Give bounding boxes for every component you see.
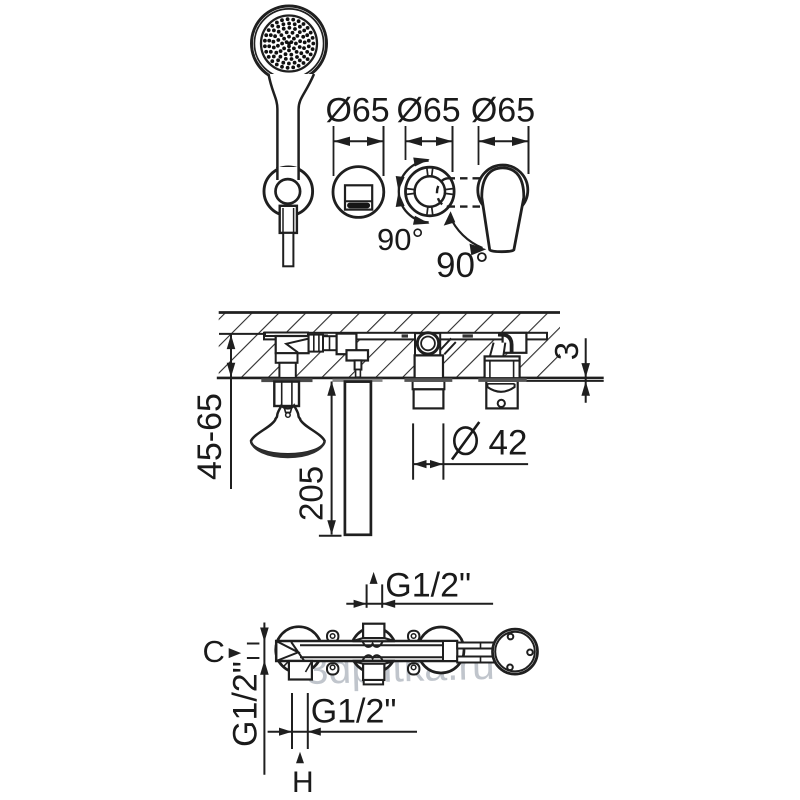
check valve down pipe xyxy=(490,343,505,357)
svg-text:45-65: 45-65 xyxy=(191,393,229,480)
dimension 205 xyxy=(331,382,333,535)
wall flange check valve xyxy=(479,379,526,382)
rotation arc 90 deg handle xyxy=(450,216,483,249)
svg-text:Ø65: Ø65 xyxy=(396,92,460,130)
wall flange hand shower xyxy=(262,379,312,382)
mounting ear bottom right xyxy=(408,663,419,674)
mixer valve strut xyxy=(440,338,456,354)
center coupling bottom square xyxy=(363,664,384,680)
flange circle 2 xyxy=(351,628,396,673)
mounting rail xyxy=(264,333,547,340)
dashed handle rotated position xyxy=(448,177,501,179)
dimension G1/2 bottom xyxy=(291,693,293,749)
right end flange xyxy=(493,629,538,674)
left elbow beak xyxy=(276,641,298,661)
threaded nipple xyxy=(457,643,495,649)
dimension line Ø65 right xyxy=(479,140,529,142)
hose connector collar xyxy=(280,206,297,233)
union nuts xyxy=(309,335,323,352)
center coupling flare bottom xyxy=(353,661,396,664)
mixer valve protrusion xyxy=(413,381,445,389)
svg-text:G1/2": G1/2" xyxy=(385,567,471,605)
svg-text:C: C xyxy=(203,634,225,669)
holder cone escutcheon xyxy=(251,406,325,455)
cone rim xyxy=(251,441,325,458)
left flange circle xyxy=(276,627,322,673)
wall flange spout xyxy=(333,379,382,381)
center coupling tail xyxy=(364,680,383,684)
spout escutcheon face view xyxy=(333,167,384,218)
rail slot A xyxy=(322,334,328,337)
center coupling top square xyxy=(363,624,384,638)
dimension 45-65 xyxy=(219,333,266,335)
dimension 3 xyxy=(585,338,587,403)
svg-text:3: 3 xyxy=(548,342,585,360)
svg-text:42: 42 xyxy=(489,424,528,463)
mounting ear top left xyxy=(327,631,338,642)
rail slot C xyxy=(463,334,473,337)
hand shower spray face xyxy=(261,16,317,72)
svg-text:Ø65: Ø65 xyxy=(325,92,389,130)
hand shower elbow body xyxy=(276,336,309,353)
label H xyxy=(296,752,304,764)
handle escutcheon xyxy=(478,165,528,215)
shower handle xyxy=(269,74,315,168)
dimension Ø42 xyxy=(412,423,414,479)
hand shower elbow lower xyxy=(276,353,298,363)
wall hatching xyxy=(219,314,560,378)
holder escutcheon pipe xyxy=(274,382,299,406)
holder ball joint xyxy=(276,179,301,204)
mixer valve cartridge circle xyxy=(417,333,438,354)
hose end xyxy=(283,233,293,266)
spout pipe xyxy=(345,382,371,535)
mounting ear bottom left xyxy=(327,663,338,674)
dimension G1/2 top xyxy=(370,572,378,584)
mixer body bar xyxy=(276,641,457,661)
ring notches xyxy=(432,167,433,176)
spout connection pin xyxy=(355,360,362,369)
rotation arc 90 deg around ring xyxy=(399,161,429,223)
bar end cap xyxy=(443,641,457,661)
spout connection body xyxy=(337,334,357,355)
dimension line Ø65 middle xyxy=(406,140,453,142)
tile face line xyxy=(526,380,604,382)
hand shower elbow top plate xyxy=(265,333,308,337)
svg-text:205: 205 xyxy=(292,466,329,521)
left elbow outlet down xyxy=(289,661,312,680)
wall holder ring xyxy=(264,167,313,216)
mounting ear top right xyxy=(408,631,419,642)
dimension line Ø65 left xyxy=(334,140,384,142)
svg-text:90°: 90° xyxy=(377,222,424,257)
svg-text:G1/2": G1/2" xyxy=(311,693,397,731)
wall top line xyxy=(219,311,560,314)
spout slot xyxy=(348,203,370,208)
mixer valve body xyxy=(415,333,440,355)
label Ø42 xyxy=(454,427,476,454)
spray nozzle dots xyxy=(263,17,315,69)
flange circle 3 xyxy=(418,627,464,673)
wall face line xyxy=(217,377,604,380)
check valve hole xyxy=(498,400,505,407)
check valve body xyxy=(485,356,520,378)
lever handle xyxy=(482,168,524,252)
check valve protrusion xyxy=(486,381,517,409)
center coupling flare top xyxy=(353,638,396,641)
svg-text:Ø65: Ø65 xyxy=(471,92,535,130)
mixer valve lower body xyxy=(415,355,443,378)
hand shower elbow outlet xyxy=(279,363,295,378)
svg-text:G1/2": G1/2" xyxy=(227,661,265,747)
svg-text:H: H xyxy=(292,766,314,799)
rail slot B xyxy=(402,334,408,337)
wall flange mixer xyxy=(405,379,452,382)
hand shower head outer rim xyxy=(252,6,327,81)
diverter escutcheon ring xyxy=(406,167,455,216)
svg-text:90°: 90° xyxy=(436,246,489,285)
check valve elbow xyxy=(503,333,527,353)
